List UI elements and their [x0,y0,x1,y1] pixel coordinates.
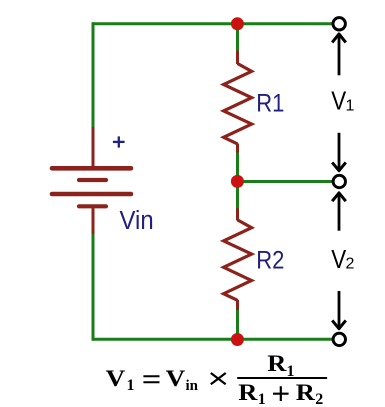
wire R1 top (green) [236,24,239,51]
wire battery top lead [92,127,95,168]
battery plus symbol [113,136,125,147]
wire R2 top lead (red) [236,208,239,220]
label V2 [331,246,354,275]
wire R2 top (green) [236,182,239,209]
wire R1 bottom lead (red) [236,144,239,153]
arrow V2 down [332,291,346,329]
formula V1 = Vin x R1/(R1+R2) [106,352,328,407]
resistor R1 [224,64,252,144]
wire R1 top lead (red) [236,51,239,65]
arrow V1 down [332,133,346,171]
wire R2 bottom lead (red) [236,300,239,310]
arrow V1 up [332,34,346,76]
wire R2 bottom (green) [236,310,239,339]
svg-text:2: 2 [315,391,323,407]
svg-text:Vin: Vin [120,206,154,235]
svg-text:V: V [106,367,126,392]
svg-text:1: 1 [346,97,355,114]
wire battery bottom lead [92,206,95,234]
terminal top [333,18,345,30]
wire bottom horizontal [93,338,332,341]
wire middle horizontal [238,180,333,183]
svg-text:V: V [331,246,346,275]
wire top horizontal [93,22,332,25]
battery Vin [52,168,131,206]
terminal middle [333,175,345,187]
svg-text:in: in [186,378,199,394]
node bottom junction [231,333,244,346]
svg-text:V: V [166,367,186,392]
svg-text:R: R [238,380,258,405]
wire left vertical upper (green) [92,22,95,127]
svg-text:1: 1 [258,391,266,407]
resistor R2 [224,220,252,300]
terminal bottom [333,333,345,345]
svg-text:R2: R2 [256,246,284,274]
label V1 [331,87,354,116]
svg-text:2: 2 [346,256,355,273]
svg-text:V: V [331,87,346,116]
wire R1 bottom (green) [236,153,239,182]
wire left vertical lower (green) [92,234,95,341]
svg-text:R: R [296,380,316,405]
svg-text:R: R [267,352,287,377]
svg-text:R1: R1 [256,89,284,117]
arrow V2 up [332,192,346,230]
node middle junction [231,175,244,188]
svg-text:1: 1 [127,377,135,394]
node top junction [231,17,244,30]
